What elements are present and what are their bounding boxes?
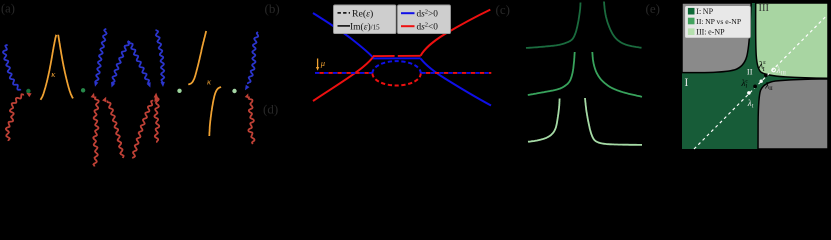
svg-text:II: II xyxy=(747,66,753,76)
diagonal lambda=lambda-prime white dashed xyxy=(694,15,827,149)
mu marker arrow (orange) xyxy=(317,59,319,68)
node: green dot D (pale) xyxy=(232,89,236,93)
region excluded gray block bottom-right xyxy=(758,79,828,149)
wire: incoming photon (blue wavy) group1 xyxy=(3,45,21,91)
wire: red wavy R3 group2 xyxy=(133,100,153,158)
svg-text:II: NP vs e-NP: II: NP vs e-NP xyxy=(696,17,741,26)
wire: blue wavy B1 group2 xyxy=(96,29,107,84)
curve Re upper-right branch ds2<0 (red) xyxy=(421,10,491,56)
legend swatch III light green xyxy=(688,28,695,35)
svg-text:(e): (e) xyxy=(646,1,660,16)
svg-text:Im(ε)/15: Im(ε)/15 xyxy=(350,21,380,32)
kink profile lower branch (orange) group3 xyxy=(209,87,221,136)
Im bubble ellipse lower arc (red dashed) xyxy=(372,73,420,85)
legend box ds2 xyxy=(398,5,451,34)
Im bubble ellipse upper arc (blue dashed) xyxy=(372,61,420,73)
legend box phases xyxy=(685,6,751,39)
node: green dot C (pale) xyxy=(177,89,181,93)
marker open circle lambda_III point xyxy=(772,68,776,72)
degenerate Re flat segment red xyxy=(373,55,395,57)
resonance curve row2 right (medium green) xyxy=(592,52,642,97)
legend swatch II medium green xyxy=(688,18,695,25)
wire: blue wavy B4 group2 xyxy=(156,30,164,83)
curve Re lower-left branch ds2<0 (red) xyxy=(313,56,374,101)
svg-text:III: III xyxy=(759,3,770,14)
wire: red wavy R2 group2 xyxy=(107,101,123,159)
region excluded gray block top-left xyxy=(682,3,751,73)
legend swatch I dark green xyxy=(688,8,695,15)
svg-text:I: I xyxy=(685,77,689,89)
node: green dot B xyxy=(81,88,85,92)
legend box Re/Im xyxy=(334,5,397,34)
wire: red wavy group3 xyxy=(248,97,254,145)
legend sample ds2>0 blue xyxy=(401,12,415,14)
resonance curve row3 right (pale green) xyxy=(585,98,642,145)
svg-text:III: e-NP: III: e-NP xyxy=(696,28,725,37)
resonance curve row1 right (dark green) xyxy=(604,2,642,48)
resonance curve row1 left (dark green) xyxy=(526,3,581,49)
degenerate Re flat segment blue xyxy=(373,57,421,59)
soliton profile kappa peak (orange) group1 xyxy=(41,35,57,100)
wire: outgoing photon (red wavy) group1 xyxy=(6,94,24,141)
svg-text:(c): (c) xyxy=(496,2,510,17)
svg-text:(d): (d) xyxy=(263,102,278,117)
marker white dot lambda_I xyxy=(747,91,751,95)
resonance curve row3 left (pale green) xyxy=(528,99,560,142)
wire: blue wavy lambda-left B2 group2 xyxy=(112,41,129,84)
marker black dot xyxy=(753,85,757,89)
svg-text:ds2>0: ds2>0 xyxy=(417,9,439,20)
wire: blue wavy lambda-right B3 group2 xyxy=(129,41,149,84)
horizontal dashed Im=0 line left segment (alternating blue/red) xyxy=(315,72,372,74)
curve Re upper-left branch ds2>0 (blue) xyxy=(313,13,374,59)
svg-text:μ: μ xyxy=(320,58,325,68)
svg-text:ds2<0: ds2<0 xyxy=(417,22,439,33)
legend sample Re dashed xyxy=(338,12,351,14)
kink profile upper branch (orange) group3 xyxy=(188,31,206,85)
node: green dot A (NP vacuum point) xyxy=(26,89,30,93)
legend sample ds2<0 red xyxy=(401,25,415,27)
wire: blue wavy group3 xyxy=(248,32,258,84)
legend sample Im solid xyxy=(338,25,351,27)
marker black dot 2 xyxy=(764,73,768,77)
curve Re lower-right branch ds2>0 (blue) xyxy=(421,59,491,106)
phase diagram background region I dark green xyxy=(682,3,828,149)
svg-text:(a): (a) xyxy=(1,1,15,15)
wire: red wavy R4 group2 xyxy=(154,97,159,143)
resonance curve row2 left (medium green) xyxy=(528,52,575,95)
svg-text:Re(ε): Re(ε) xyxy=(352,8,373,19)
svg-text:(b): (b) xyxy=(265,1,280,16)
horizontal dashed Im=0 line right segment xyxy=(421,72,491,74)
marker white dot small xyxy=(760,80,763,83)
region III light green top-right xyxy=(756,3,828,78)
svg-text:I: NP: I: NP xyxy=(696,7,713,16)
wire: red wavy R1 group2 xyxy=(93,97,98,167)
